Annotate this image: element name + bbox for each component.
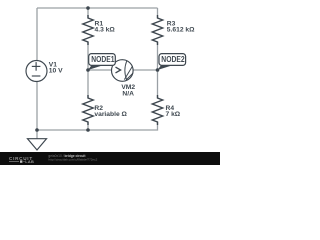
svg-text:variable Ω: variable Ω <box>94 111 127 118</box>
svg-text:NODE2: NODE2 <box>161 55 185 64</box>
svg-text:LAB: LAB <box>25 159 34 164</box>
svg-text:N/A: N/A <box>122 90 134 97</box>
svg-text:NODE1: NODE1 <box>91 55 115 64</box>
svg-text:5.612 kΩ: 5.612 kΩ <box>167 27 195 34</box>
svg-text:4.3 kΩ: 4.3 kΩ <box>95 27 116 34</box>
svg-text:http://circuitlab.com/c/f8abde: http://circuitlab.com/c/f8abdef772ec2 <box>48 158 97 162</box>
svg-text:7 kΩ: 7 kΩ <box>166 111 181 118</box>
svg-text:10 V: 10 V <box>49 67 63 74</box>
